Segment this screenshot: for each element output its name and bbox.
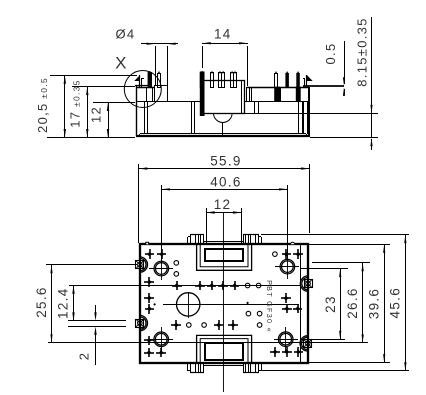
svg-text:14: 14 — [214, 27, 232, 42]
small vent holes — [174, 252, 277, 328]
screw boss right-top — [300, 276, 312, 291]
svg-text:12: 12 — [214, 197, 232, 212]
centerline dots — [154, 302, 249, 305]
plan view - vertical centerline — [223, 213, 225, 392]
svg-text:55.9: 55.9 — [210, 154, 241, 169]
dimension 14 with extension lines — [202, 27, 248, 87]
plan view - top latch tower — [188, 233, 262, 244]
dimension 23 right — [301, 269, 348, 340]
terminal pin crosses — [144, 249, 303, 357]
plan view - bottom latch recess — [197, 335, 252, 363]
module plan view - main outline — [140, 244, 308, 363]
dimension 39.6 right — [308, 244, 390, 363]
dimension 12 top — [206, 197, 242, 233]
mounting hole bottom-left — [149, 327, 173, 351]
svg-text:40.6: 40.6 — [210, 174, 241, 189]
large center hole — [177, 292, 200, 318]
svg-text:Ø4: Ø4 — [116, 27, 136, 42]
dimension 17 plus-minus 0.35 at left — [68, 79, 136, 138]
screw boss left-top — [136, 257, 148, 272]
mounting hole bottom-right — [274, 327, 298, 351]
svg-text:2: 2 — [76, 352, 91, 361]
module side view - bottom slab outline — [136, 85, 378, 136]
svg-text:12: 12 — [89, 106, 104, 123]
side view - middle connector block — [200, 72, 244, 136]
dimension 20.5 plus-minus 0.5 at left — [35, 75, 137, 138]
screw boss left-bottom — [136, 315, 148, 330]
detail label X with detail circle — [115, 54, 161, 108]
plan view - top latch recess — [197, 244, 252, 270]
dimension 12.4 left — [55, 285, 301, 321]
dimension 26.6 right — [312, 263, 370, 344]
svg-text:0.5: 0.5 — [323, 43, 338, 65]
plan view - horizontal centerline — [163, 304, 299, 306]
boss row line bottom — [48, 342, 368, 344]
mounting hole top-right — [275, 255, 299, 279]
side view - right tower pins — [275, 71, 300, 88]
dimension 25.6 left — [34, 265, 137, 344]
side view - right mounting clip — [303, 75, 344, 86]
svg-text:12.4: 12.4 — [55, 287, 70, 318]
side view - left mounting clip — [134, 75, 148, 87]
dimension 45.6 right — [259, 235, 409, 372]
dimension 12 at left — [89, 102, 136, 138]
side view - middle block pins — [200, 71, 236, 88]
svg-text:23: 23 — [323, 295, 338, 313]
material marking text PBT GF30 — [265, 280, 274, 333]
dimension 2 left — [68, 305, 126, 365]
dimension 55.9 top — [139, 154, 311, 244]
vent bump right on top edge — [291, 242, 295, 244]
svg-text:45.6: 45.6 — [388, 287, 403, 318]
side view - right tower — [247, 87, 310, 134]
svg-text:X: X — [115, 54, 128, 73]
svg-text:39.6: 39.6 — [366, 288, 381, 319]
side view - left tower pins — [148, 71, 160, 88]
vent bump left on top edge — [146, 242, 149, 244]
svg-text:8.15±0.35: 8.15±0.35 — [354, 17, 369, 86]
dimension diameter 4 with extension lines — [116, 27, 178, 102]
svg-text:PBT GF30 «: PBT GF30 « — [265, 280, 274, 333]
dimension 8.15 plus-minus 0.35 — [310, 17, 378, 150]
svg-text:26.6: 26.6 — [345, 287, 360, 318]
screw boss right-bottom — [300, 336, 312, 351]
plan view - bottom latch tower — [188, 363, 262, 373]
mounting hole top-left — [149, 256, 173, 280]
svg-text:25.6: 25.6 — [34, 286, 49, 317]
dimension 40.6 — [162, 174, 289, 261]
side view - left tower — [137, 73, 195, 135]
dimension 0.5 vertical at right — [323, 41, 345, 96]
